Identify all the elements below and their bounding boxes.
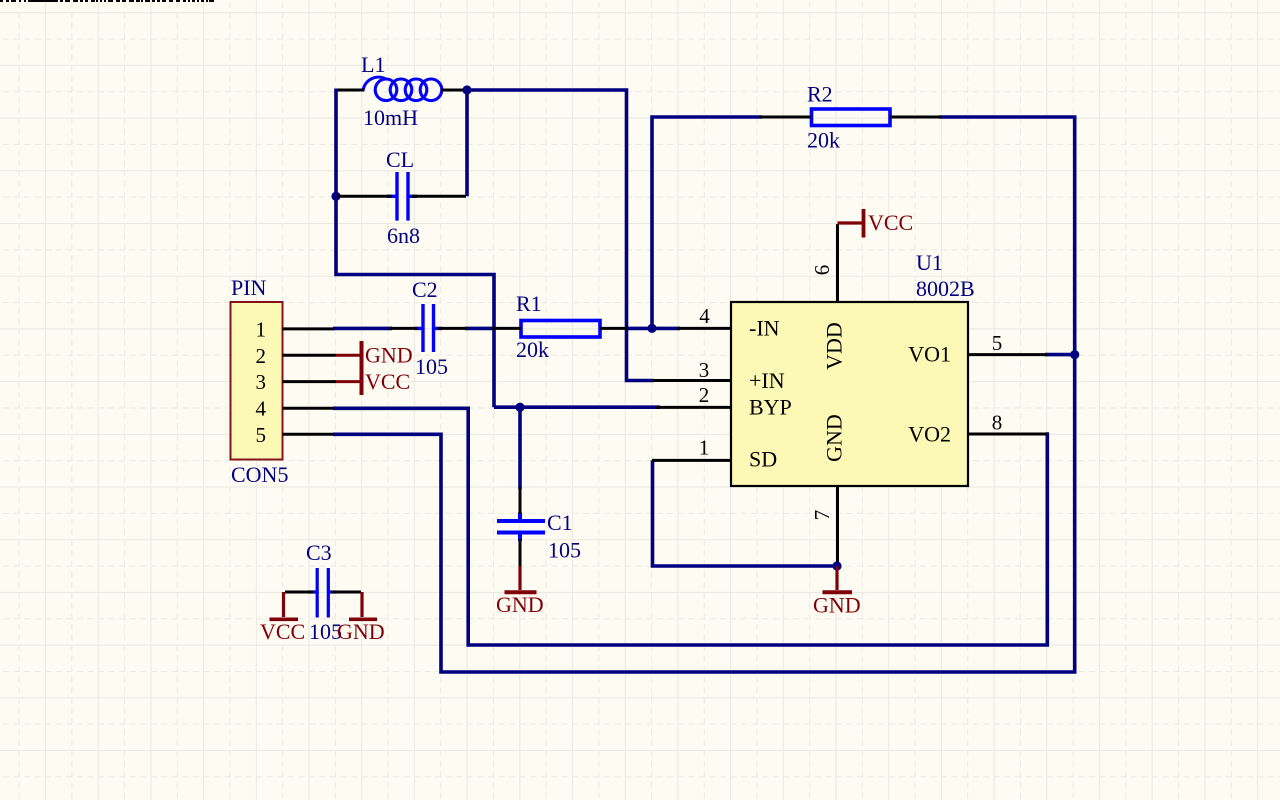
R2 pin leads: [760, 116, 941, 119]
svg-text:10mH: 10mH: [363, 105, 418, 130]
svg-text:GND: GND: [337, 619, 385, 644]
svg-text:GND: GND: [365, 343, 413, 368]
svg-text:-IN: -IN: [749, 316, 780, 341]
L1 pin leads: [337, 89, 466, 92]
U1 pin 1 lead: [652, 459, 731, 462]
svg-text:1: 1: [256, 318, 267, 342]
wire: R1 output node to U1 pin 4 (-IN): [626, 327, 680, 331]
wire: R2 right to output bus vertical: [333, 117, 1075, 672]
svg-text:VCC: VCC: [868, 210, 913, 235]
svg-text:105: 105: [415, 354, 448, 379]
IC U1 body: [731, 302, 968, 486]
resistor R1: [521, 321, 600, 338]
svg-text:PIN: PIN: [231, 275, 267, 300]
svg-text:3: 3: [256, 370, 267, 394]
U1 pin 8 lead: [968, 433, 1047, 436]
svg-text:3: 3: [699, 358, 710, 382]
junction node at L1/CL left lower: [331, 192, 340, 201]
svg-text:BYP: BYP: [749, 395, 792, 420]
wire: L1/CL right vertical: [465, 90, 469, 196]
svg-text:8: 8: [992, 411, 1003, 435]
svg-text:2: 2: [699, 383, 710, 407]
connector pin 4: [283, 407, 335, 410]
wire: BYP node down to C1: [518, 407, 522, 489]
junction node -IN / R1 / R2: [647, 324, 656, 333]
svg-text:7: 7: [810, 510, 834, 521]
junction node output bus / VO1: [1070, 350, 1079, 359]
svg-text:105: 105: [548, 538, 581, 563]
junction node SD/pin7 GND: [832, 561, 841, 570]
svg-text:8002B: 8002B: [916, 276, 975, 301]
U1 pin 2 lead: [656, 406, 731, 409]
inductor L1: [363, 77, 442, 100]
connector pin 5: [283, 433, 335, 436]
svg-text:VO1: VO1: [908, 342, 951, 367]
power port VCC (U1 pin 6): [838, 221, 863, 224]
wire: VO2 pin 8 loop back to connector pin 4: [333, 408, 1047, 645]
svg-text:+IN: +IN: [749, 368, 785, 393]
capacitor C3: [285, 568, 361, 618]
svg-text:4: 4: [256, 397, 267, 421]
wire: R2 left elbow down to -IN node: [652, 117, 762, 327]
wire: VO1 pin 5 stub to output bus junction: [1045, 353, 1074, 357]
power port GND (U1 pin 7): [835, 566, 838, 590]
U1 pin 6 lead: [836, 224, 839, 302]
power port GND (C3 right): [360, 592, 363, 617]
junction node at L1/CL right: [462, 85, 471, 94]
capacitor C1: [497, 487, 545, 567]
U1 pin 7 lead: [836, 486, 839, 566]
U1 pin 5 lead: [968, 353, 1047, 356]
svg-text:1: 1: [699, 436, 710, 460]
svg-text:C2: C2: [412, 277, 438, 302]
power port VCC (C3 left): [282, 592, 285, 617]
svg-text:20k: 20k: [807, 128, 840, 153]
svg-text:6n8: 6n8: [387, 223, 420, 248]
power port VCC (connector pin 3): [336, 380, 362, 383]
svg-text:L1: L1: [361, 52, 385, 77]
wire: L1/CL right node to top elbow toward +IN: [465, 90, 654, 381]
resistor R2: [812, 109, 891, 126]
svg-text:GND: GND: [496, 592, 544, 617]
wire: connector pin1 to C2: [333, 327, 392, 331]
svg-text:GND: GND: [822, 414, 847, 462]
connector pin 1: [283, 327, 335, 330]
wire: net IN-left vertical from L1/CL left node down to BYP elbow: [336, 89, 494, 408]
svg-text:CL: CL: [386, 147, 414, 172]
U1 pin 4 lead: [678, 327, 731, 330]
connector pin 2: [283, 354, 337, 357]
wire: SD pin 1 loop to GND node under U1: [653, 460, 838, 566]
wire: BYP horizontal into U1 pin 2: [494, 405, 660, 409]
R1 pin leads: [492, 327, 628, 330]
svg-text:CON5: CON5: [231, 462, 288, 487]
svg-text:VO2: VO2: [908, 422, 951, 447]
svg-text:SD: SD: [749, 447, 777, 472]
svg-text:R2: R2: [807, 82, 833, 107]
svg-text:5: 5: [256, 423, 267, 447]
junction node BYP/C1: [515, 403, 524, 412]
svg-text:R1: R1: [516, 291, 542, 316]
capacitor CL: [338, 172, 466, 221]
capacitor C2: [390, 304, 467, 352]
power port GND (connector pin 2): [336, 354, 362, 357]
connector CON5 body: [231, 302, 283, 460]
connector pin 3: [283, 380, 337, 383]
svg-text:2: 2: [256, 344, 267, 368]
svg-text:C3: C3: [306, 540, 332, 565]
svg-text:VCC: VCC: [260, 619, 305, 644]
U1 pin 3 lead: [653, 379, 732, 382]
svg-text:4: 4: [699, 304, 710, 328]
svg-text:U1: U1: [916, 250, 943, 275]
svg-text:GND: GND: [813, 593, 861, 618]
svg-text:5: 5: [992, 331, 1003, 355]
svg-text:6: 6: [810, 265, 834, 276]
svg-text:20k: 20k: [516, 337, 549, 362]
wire: C2 to R1: [465, 327, 494, 331]
svg-text:VDD: VDD: [822, 322, 847, 370]
power port GND (C1): [518, 566, 521, 590]
svg-text:VCC: VCC: [365, 369, 410, 394]
svg-text:C1: C1: [547, 510, 573, 535]
